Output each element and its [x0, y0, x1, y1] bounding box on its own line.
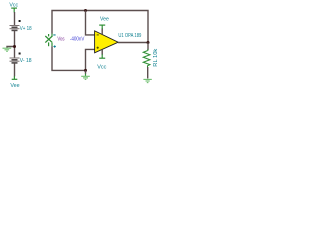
junction (left rail / ground)	[13, 45, 16, 48]
wire ground stub	[7, 47, 15, 48]
minus mark (inverting input)	[97, 34, 99, 35]
wire top feedback	[52, 11, 148, 43]
wire output to load	[147, 43, 149, 50]
wire noninverting input	[86, 49, 95, 70]
plus mark (noninverting input)	[97, 47, 99, 49]
polarity tick of Vos (bottom)	[54, 46, 56, 47]
wire load to ground	[147, 67, 149, 79]
wire inverting input	[86, 11, 95, 35]
svg-text:Vee: Vee	[10, 83, 19, 89]
pin stub bottom supply	[101, 50, 103, 55]
ground (left)	[3, 48, 12, 51]
jumper Vee (op-amp top, green T)	[99, 25, 105, 29]
ground (center)	[81, 76, 90, 79]
wire Vos bottom to ground rail	[52, 46, 86, 70]
svg-text:RL 10k: RL 10k	[153, 48, 159, 66]
ground pin (center, green stem)	[85, 74, 87, 76]
jumper Vee (left rail, green inverted T)	[12, 76, 18, 79]
plus marker V-	[19, 53, 21, 55]
wire left rail upper	[14, 12, 16, 26]
jumper Vcc (left rail, green T)	[11, 8, 17, 12]
source Vos pins (green)	[49, 34, 52, 47]
wire to ground (center)	[85, 70, 87, 73]
wire left rail lower	[14, 64, 16, 77]
svg-text:Vcc: Vcc	[9, 2, 18, 8]
source Vos (green X)	[45, 36, 52, 43]
svg-text:-400nV: -400nV	[70, 36, 85, 42]
wire left rail middle	[14, 31, 16, 58]
battery V+ 18	[10, 26, 20, 31]
svg-text:V+ 18: V+ 18	[20, 26, 32, 32]
junction output node	[147, 41, 150, 44]
svg-text:Vee: Vee	[100, 16, 109, 22]
op-amp U1 triangle	[95, 31, 119, 53]
jumper Vcc (op-amp bottom, green inverted T)	[99, 54, 105, 58]
pin stub top supply	[101, 28, 103, 34]
svg-text:Vos: Vos	[57, 36, 64, 42]
resistor RL zigzag	[143, 51, 150, 68]
svg-text:Vcc: Vcc	[97, 65, 106, 71]
svg-text:U1 OPA 189: U1 OPA 189	[118, 33, 141, 39]
svg-text:V- 18: V- 18	[20, 58, 32, 64]
resistor RL pin (green)	[147, 49, 149, 51]
plus marker V+	[19, 20, 21, 22]
junction bottom (Vos / +input / ground)	[84, 69, 87, 72]
junction top (feedback / inverting input)	[84, 9, 87, 12]
battery V- 18	[10, 58, 20, 63]
ground (load)	[143, 79, 151, 82]
polarity tick of Vos (top)	[53, 34, 55, 35]
wire output	[118, 42, 148, 44]
